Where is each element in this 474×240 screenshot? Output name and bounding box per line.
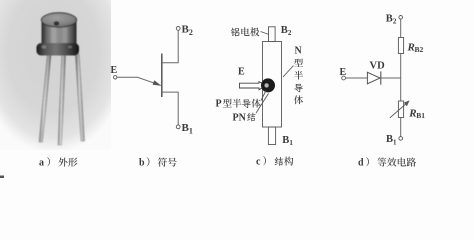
svg-text:c: c [256, 157, 261, 168]
svg-text:E: E [111, 65, 118, 76]
svg-text:P: P [216, 99, 222, 110]
svg-text:E: E [238, 67, 245, 78]
svg-text:VD: VD [370, 61, 386, 72]
svg-text:E: E [340, 67, 347, 78]
svg-text:d: d [358, 158, 364, 169]
svg-text:B1: B1 [416, 111, 425, 120]
svg-text:N: N [295, 46, 303, 57]
svg-text:b: b [139, 158, 145, 169]
svg-text:a: a [39, 158, 44, 169]
svg-text:B2: B2 [415, 45, 424, 54]
svg-text:PN: PN [233, 112, 247, 123]
